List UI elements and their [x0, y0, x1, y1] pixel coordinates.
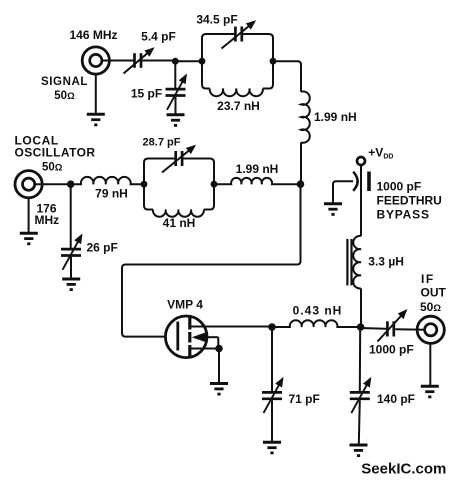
inductor L3 79 nH	[75, 177, 145, 184]
svg-text:79 nH: 79 nH	[95, 187, 128, 201]
svg-text:1000 pF: 1000 pF	[369, 343, 414, 357]
svg-text:MHz: MHz	[34, 213, 59, 227]
capacitor C7 1000 pF feedthru bypass	[333, 172, 369, 203]
node E junction (drain node)	[268, 323, 276, 331]
capacitor C6 71 pF (variable, shunt)	[271, 327, 273, 392]
ground (C6)	[263, 442, 281, 453]
svg-text:140 pF: 140 pF	[377, 392, 415, 406]
svg-text:71 pF: 71 pF	[289, 392, 320, 406]
svg-text:1.99 nH: 1.99 nH	[236, 162, 279, 176]
wire C1 to node A	[142, 60, 173, 62]
inductor L7 3.3 uH (with core)	[347, 236, 361, 289]
wire C8 to J3	[395, 328, 425, 331]
node source junction	[215, 345, 223, 353]
capacitor C9 140 pF (variable, shunt)	[359, 327, 361, 392]
inductor L1 23.7 nH (tank1 bottom)	[210, 89, 263, 97]
wire L2 to node C	[300, 142, 302, 184]
inductor L5 1.99 nH (horizontal)	[214, 178, 297, 184]
node tank2 left junction	[141, 181, 148, 188]
svg-text:15 pF: 15 pF	[131, 87, 162, 101]
wire VDD down	[360, 165, 362, 236]
connector J1 SIGNAL input	[82, 47, 109, 74]
transistor Q1 VMP 4 MOSFET	[165, 316, 218, 358]
ground (C2)	[167, 115, 185, 126]
svg-text:+VDD: +VDD	[368, 145, 393, 160]
svg-text:1.99 nH: 1.99 nH	[314, 110, 357, 124]
wire J2 to ground	[28, 197, 30, 232]
ground (feedthru)	[324, 204, 342, 215]
wire J1 to ground	[95, 74, 97, 114]
wire J3 to ground	[429, 343, 431, 386]
svg-text:OUT: OUT	[421, 286, 447, 300]
svg-text:SeekIC.com: SeekIC.com	[361, 460, 446, 477]
svg-text:146 MHz: 146 MHz	[69, 28, 117, 42]
svg-text:50Ω: 50Ω	[54, 90, 75, 102]
ground (signal jack)	[87, 114, 105, 125]
svg-text:BYPASS: BYPASS	[377, 207, 430, 221]
wire node C down to gate of Q1	[122, 184, 301, 336]
capacitor C5 28.7 pF (variable, in tank2 top)	[162, 146, 195, 173]
wire node A to tank1	[175, 60, 202, 62]
capacitor C4 26 pF (variable, shunt)	[70, 184, 72, 248]
ground (J3)	[421, 386, 439, 397]
tank1 frame wires (rounded corners)	[202, 34, 234, 89]
tank2 frame wires (rounded corners)	[144, 159, 174, 210]
capacitor C8 1000 pF (variable, series to IF out)	[378, 311, 407, 342]
wire L7 to node F	[360, 288, 362, 327]
node D junction	[67, 180, 75, 188]
wire node F to C8	[361, 327, 387, 330]
svg-text:IF: IF	[421, 272, 435, 286]
wire Q1 drain line	[190, 326, 272, 328]
node A junction	[172, 58, 179, 65]
svg-text:3.3 µH: 3.3 µH	[368, 255, 404, 269]
ground (C9)	[350, 445, 368, 456]
svg-text:26 pF: 26 pF	[87, 240, 118, 254]
svg-text:0.43 nH: 0.43 nH	[293, 304, 343, 318]
svg-text:5.4 pF: 5.4 pF	[141, 30, 176, 44]
wire Q1 source	[190, 348, 219, 350]
svg-text:1000 pF: 1000 pF	[377, 180, 422, 194]
wire J2 to node D	[34, 183, 68, 185]
node F junction	[357, 323, 365, 331]
wire J1 to C1	[101, 60, 133, 62]
wire tank1 to L2	[273, 61, 301, 92]
terminal +VDD	[357, 157, 365, 165]
inductor L6 0.43 nH	[272, 320, 357, 327]
wire source to ground	[218, 349, 220, 383]
svg-text:34.5 pF: 34.5 pF	[196, 13, 237, 27]
node B junction (tank1 left)	[199, 58, 206, 65]
svg-text:41 nH: 41 nH	[163, 216, 196, 230]
node C junction (sum node)	[297, 180, 305, 188]
svg-text:VMP 4: VMP 4	[167, 298, 203, 312]
node tank1 right junction	[270, 58, 277, 65]
ground (C4)	[62, 279, 80, 290]
svg-text:FEEDTHRU: FEEDTHRU	[377, 193, 442, 207]
inductor L4 41 nH (tank2 bottom)	[153, 210, 204, 217]
connector J3 IF OUT	[417, 316, 444, 343]
svg-text:OSCILLATOR: OSCILLATOR	[15, 145, 96, 159]
ground (LO jack)	[20, 233, 38, 244]
svg-text:23.7 nH: 23.7 nH	[217, 99, 260, 113]
svg-text:50Ω: 50Ω	[420, 300, 441, 314]
connector J2 LOCAL OSCILLATOR input	[15, 171, 42, 198]
node tank2 right junction	[211, 181, 218, 188]
capacitor C1 5.4 pF (variable, series)	[124, 49, 154, 74]
svg-text:28.7 pF: 28.7 pF	[143, 136, 181, 148]
ground (Q1 source)	[210, 384, 228, 395]
inductor L2 1.99 nH (vertical)	[301, 91, 310, 142]
capacitor C2 15 pF (variable, shunt)	[174, 61, 176, 88]
svg-text:SIGNAL: SIGNAL	[41, 76, 88, 88]
svg-text:50Ω: 50Ω	[42, 162, 63, 174]
capacitor C3 34.5 pF (variable, in tank1 top)	[222, 22, 255, 49]
